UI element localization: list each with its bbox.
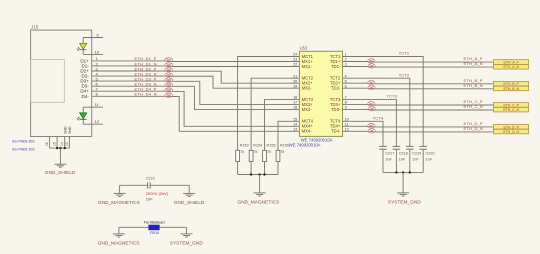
pin 12 TD4-	[331, 128, 349, 134]
svg-text:SS-74301-002: SS-74301-002	[12, 139, 35, 143]
port ETH_C_N	[493, 107, 528, 112]
svg-text:2000V (2kV): 2000V (2kV)	[146, 191, 169, 196]
ground SYSTEM_GND	[181, 234, 193, 237]
svg-text:13: 13	[293, 128, 297, 132]
polarity mark	[165, 93, 173, 97]
resistor R156	[276, 150, 280, 161]
junction	[402, 171, 404, 173]
svg-text:R153: R153	[240, 144, 249, 148]
svg-text:R155: R155	[267, 144, 276, 148]
pin 3 TD1-	[331, 63, 347, 69]
svg-text:1nF: 1nF	[385, 157, 392, 161]
svg-text:R154: R154	[253, 144, 262, 148]
pin 17 MX3+	[293, 101, 313, 107]
svg-text:TD4-: TD4-	[331, 129, 341, 134]
wire to system ground	[402, 172, 404, 193]
svg-text:SYSTEM_GND: SYSTEM_GND	[170, 240, 204, 246]
svg-text:15: 15	[293, 118, 297, 122]
svg-text:GND_MAGNETICS: GND_MAGNETICS	[98, 200, 140, 206]
svg-text:1nF: 1nF	[412, 157, 419, 161]
svg-text:FB10: FB10	[150, 231, 159, 235]
capacitor lower stub	[422, 149, 424, 172]
svg-text:75: 75	[253, 150, 257, 154]
ground SYSTEM_GND	[397, 193, 409, 196]
svg-text:23: 23	[293, 58, 297, 62]
svg-text:R156: R156	[280, 144, 289, 148]
pin 8 TD3+	[330, 101, 347, 107]
svg-text:ETH_D_N: ETH_D_N	[503, 130, 519, 134]
svg-text:TCT4: TCT4	[373, 115, 384, 120]
shield bus wire	[50, 147, 70, 149]
capacitor C217	[379, 146, 387, 149]
svg-text:9: 9	[96, 32, 99, 37]
svg-text:MX3-: MX3-	[302, 107, 313, 112]
wire ETH_D_N	[343, 130, 494, 133]
svg-text:1nF: 1nF	[426, 157, 433, 161]
svg-text:TCT2: TCT2	[399, 72, 410, 77]
svg-text:12: 12	[95, 119, 100, 124]
svg-text:21: 21	[293, 74, 297, 78]
wire down left	[118, 227, 120, 234]
resistor R153	[236, 150, 240, 161]
svg-text:16: 16	[45, 142, 49, 146]
ferrite bead FB10	[148, 225, 159, 231]
junction	[56, 147, 58, 149]
capacitor C220	[419, 146, 427, 149]
wire ETH_B_N	[343, 87, 494, 90]
svg-text:10: 10	[95, 49, 100, 54]
svg-text:GND_MAGNETICS: GND_MAGNETICS	[237, 200, 279, 206]
wire magnetics gnd to FB10	[119, 226, 187, 228]
wire ETH_D2_N	[92, 76, 300, 88]
pin 18 MCT3	[293, 96, 314, 102]
junction	[409, 171, 411, 173]
ground GND_MAGNETICS	[254, 193, 266, 196]
polarity mark	[165, 58, 173, 62]
resistor lower stub	[250, 162, 252, 175]
wire TCT2	[343, 78, 410, 146]
svg-text:C217: C217	[385, 151, 394, 155]
polarity mark	[165, 88, 173, 92]
port ETH_B_P	[493, 81, 528, 86]
port ETH_D_N	[493, 129, 528, 134]
svg-text:75: 75	[267, 150, 271, 154]
capacitor lower stub	[409, 149, 411, 172]
port ETH_A_P	[493, 60, 528, 65]
svg-text:16: 16	[293, 106, 297, 110]
wire magnetics gnd to C222	[120, 184, 148, 186]
polarity mark	[165, 78, 173, 82]
svg-text:TCT3: TCT3	[386, 94, 397, 99]
svg-text:ETH_B_N: ETH_B_N	[464, 83, 483, 88]
transformer U53 body	[299, 51, 342, 136]
polarity mark	[368, 124, 375, 128]
pin 20 MX2+	[293, 79, 313, 85]
wire down right	[188, 185, 190, 193]
capacitor common bus	[383, 171, 423, 173]
resistor lower stub	[237, 162, 239, 175]
LED yellow wire	[82, 38, 84, 55]
connector J15 body	[31, 30, 92, 136]
resistor lower stub	[264, 162, 266, 175]
svg-text:ETH_B_P: ETH_B_P	[504, 82, 520, 86]
polarity mark	[368, 102, 375, 106]
pin 19 MX2-	[293, 84, 312, 90]
pin 22 MX1-	[293, 63, 312, 69]
LED yellow (link)	[77, 43, 87, 51]
polarity mark	[368, 59, 375, 63]
wire ETH_D3_P	[92, 81, 300, 104]
wire C222 to shield gnd	[150, 184, 189, 186]
wire ETH_D4_P	[92, 91, 300, 126]
wire TCT4	[343, 121, 384, 146]
pin 11 TD4+	[330, 123, 348, 129]
wire ETH_D1_N	[92, 65, 300, 68]
svg-text:TD2-: TD2-	[331, 86, 341, 91]
pin 10 stub	[83, 53, 103, 55]
pin 7 TCT3	[330, 96, 347, 102]
polarity mark	[165, 73, 173, 77]
ground GND_SHIELD	[54, 164, 66, 167]
svg-text:WE 749020010A: WE 749020010A	[289, 143, 321, 148]
polarity mark	[165, 68, 173, 72]
port ETH_C_P	[493, 103, 528, 108]
connector jack face rectangle	[31, 60, 65, 103]
svg-text:GND_SHIELD: GND_SHIELD	[174, 200, 205, 206]
wire ETH_D1_P	[92, 60, 300, 63]
pin 13 MX4-	[293, 128, 312, 134]
resistor common bus	[238, 174, 278, 176]
wire to shield ground	[59, 148, 61, 164]
svg-text:TCT1: TCT1	[399, 51, 410, 56]
polarity mark	[368, 85, 375, 89]
junction	[63, 147, 65, 149]
LED green wire	[82, 107, 84, 124]
wire ETH_C_P	[343, 103, 494, 106]
pin 14 MX4+	[293, 123, 313, 129]
capacitor C222	[148, 182, 151, 188]
svg-text:U53: U53	[300, 45, 308, 50]
svg-text:MX1-: MX1-	[302, 64, 313, 69]
junction	[395, 171, 397, 173]
capacitor C218	[393, 146, 401, 149]
capacitor C219	[406, 146, 414, 149]
pin 9 stub	[83, 37, 103, 39]
port ETH_B_N	[493, 86, 528, 91]
svg-text:22: 22	[293, 63, 297, 67]
svg-text:SHD: SHD	[68, 126, 72, 134]
shield pin stub 15	[56, 137, 58, 149]
polarity mark	[368, 107, 375, 111]
pin 9 TD3-	[331, 106, 347, 112]
svg-text:75: 75	[280, 150, 284, 154]
junction	[250, 173, 252, 175]
shield pin stub 14	[64, 137, 66, 149]
junction	[59, 147, 61, 149]
svg-text:SYSTEM_GND: SYSTEM_GND	[388, 200, 422, 206]
polarity mark	[368, 80, 375, 84]
wire ETH_A_N	[343, 66, 494, 69]
svg-text:75: 75	[240, 150, 244, 154]
pin 12 stub	[83, 123, 103, 125]
polarity mark	[165, 83, 173, 87]
svg-text:D4-: D4-	[82, 94, 90, 99]
svg-text:SS-74301-002: SS-74301-002	[12, 147, 35, 151]
port ETH_D_P	[493, 125, 528, 130]
shield pin stub 16	[49, 137, 51, 149]
shield pin stub 13	[68, 137, 70, 149]
svg-text:ETH_A_P: ETH_A_P	[504, 60, 520, 64]
wire ETH_C_N	[343, 108, 494, 111]
svg-text:ETH_D_N: ETH_D_N	[464, 126, 484, 131]
svg-text:14: 14	[293, 123, 297, 127]
svg-text:MX4-: MX4-	[302, 129, 313, 134]
wire to magnetics ground	[259, 175, 261, 193]
pin 21 MCT2	[293, 74, 314, 80]
wire MCT4	[278, 121, 299, 150]
wire ETH_D4_N	[92, 96, 300, 131]
svg-text:ETH_C_N: ETH_C_N	[503, 108, 519, 112]
wire ETH_D_P	[343, 125, 494, 128]
svg-text:C220: C220	[426, 151, 435, 155]
pin 15 MCT4	[293, 118, 314, 124]
svg-text:TD1-: TD1-	[331, 64, 341, 69]
wire down right	[186, 227, 188, 234]
polarity mark	[165, 63, 173, 67]
polarity mark	[368, 64, 375, 68]
pin 5 TD2+	[330, 79, 347, 85]
pin 10 TCT4	[330, 118, 349, 124]
wire ETH_D2_P	[92, 71, 300, 83]
ground GND_MAGNETICS	[113, 234, 125, 237]
svg-text:TD3-: TD3-	[331, 107, 341, 112]
resistor R155	[263, 150, 267, 161]
wire down left	[119, 185, 121, 193]
svg-text:14: 14	[60, 142, 64, 146]
svg-text:15: 15	[53, 142, 57, 146]
wire TCT3	[343, 99, 397, 146]
svg-text:ETH_D_P: ETH_D_P	[503, 125, 519, 129]
wire ETH_B_P	[343, 82, 494, 85]
svg-text:C218: C218	[399, 151, 408, 155]
wire MCT2	[251, 78, 299, 150]
pin 16 MX3-	[293, 106, 312, 112]
junction	[263, 173, 265, 175]
svg-text:FerriteBead: FerriteBead	[144, 219, 165, 224]
svg-text:SHD: SHD	[64, 126, 68, 134]
svg-text:13: 13	[65, 142, 69, 146]
wire MCT3	[265, 99, 300, 150]
pin 4 TCT2	[330, 74, 347, 80]
wire MCT1	[238, 57, 300, 151]
wire ETH_D3_N	[92, 86, 300, 109]
svg-text:20: 20	[293, 79, 297, 83]
ground GND_SHIELD	[183, 193, 195, 196]
svg-text:GND_SHIELD: GND_SHIELD	[45, 170, 76, 176]
svg-text:17: 17	[293, 101, 297, 105]
svg-text:ETH_A_N: ETH_A_N	[503, 65, 519, 69]
svg-text:C222: C222	[146, 176, 155, 180]
svg-text:1nF: 1nF	[399, 157, 406, 161]
LED green (activity)	[77, 113, 87, 121]
capacitor lower stub	[382, 149, 384, 172]
svg-text:ETH_B_N: ETH_B_N	[503, 87, 519, 91]
pin 23 MX1+	[293, 58, 313, 64]
svg-text:J15: J15	[31, 24, 39, 29]
svg-text:ETH_D4_N: ETH_D4_N	[135, 92, 157, 97]
pin 24 MCT1	[293, 53, 314, 59]
resistor lower stub	[277, 162, 279, 175]
svg-text:ETH_C_N: ETH_C_N	[464, 104, 484, 109]
ground GND_MAGNETICS	[114, 193, 126, 196]
junction	[258, 173, 260, 175]
pin 2 TD1+	[330, 58, 347, 64]
svg-text:19: 19	[293, 84, 297, 88]
pin 6 TD2-	[331, 84, 347, 90]
port ETH_A_N	[493, 64, 528, 69]
svg-text:GND_MAGNETICS: GND_MAGNETICS	[98, 240, 140, 246]
svg-text:C219: C219	[412, 151, 421, 155]
svg-text:MX2-: MX2-	[302, 86, 313, 91]
pin 11 stub	[83, 106, 103, 108]
resistor R154	[249, 150, 253, 161]
svg-text:11: 11	[95, 102, 100, 107]
svg-text:18: 18	[293, 96, 297, 100]
svg-text:1nF: 1nF	[146, 197, 153, 202]
pin 1 TCT1	[330, 53, 347, 59]
polarity mark	[368, 129, 375, 133]
svg-text:ETH_A_N: ETH_A_N	[464, 61, 483, 66]
capacitor lower stub	[395, 149, 397, 172]
wire ETH_A_P	[343, 61, 494, 64]
wire TCT1	[343, 57, 424, 147]
svg-text:24: 24	[293, 53, 297, 57]
svg-text:ETH_C_P: ETH_C_P	[503, 103, 519, 107]
